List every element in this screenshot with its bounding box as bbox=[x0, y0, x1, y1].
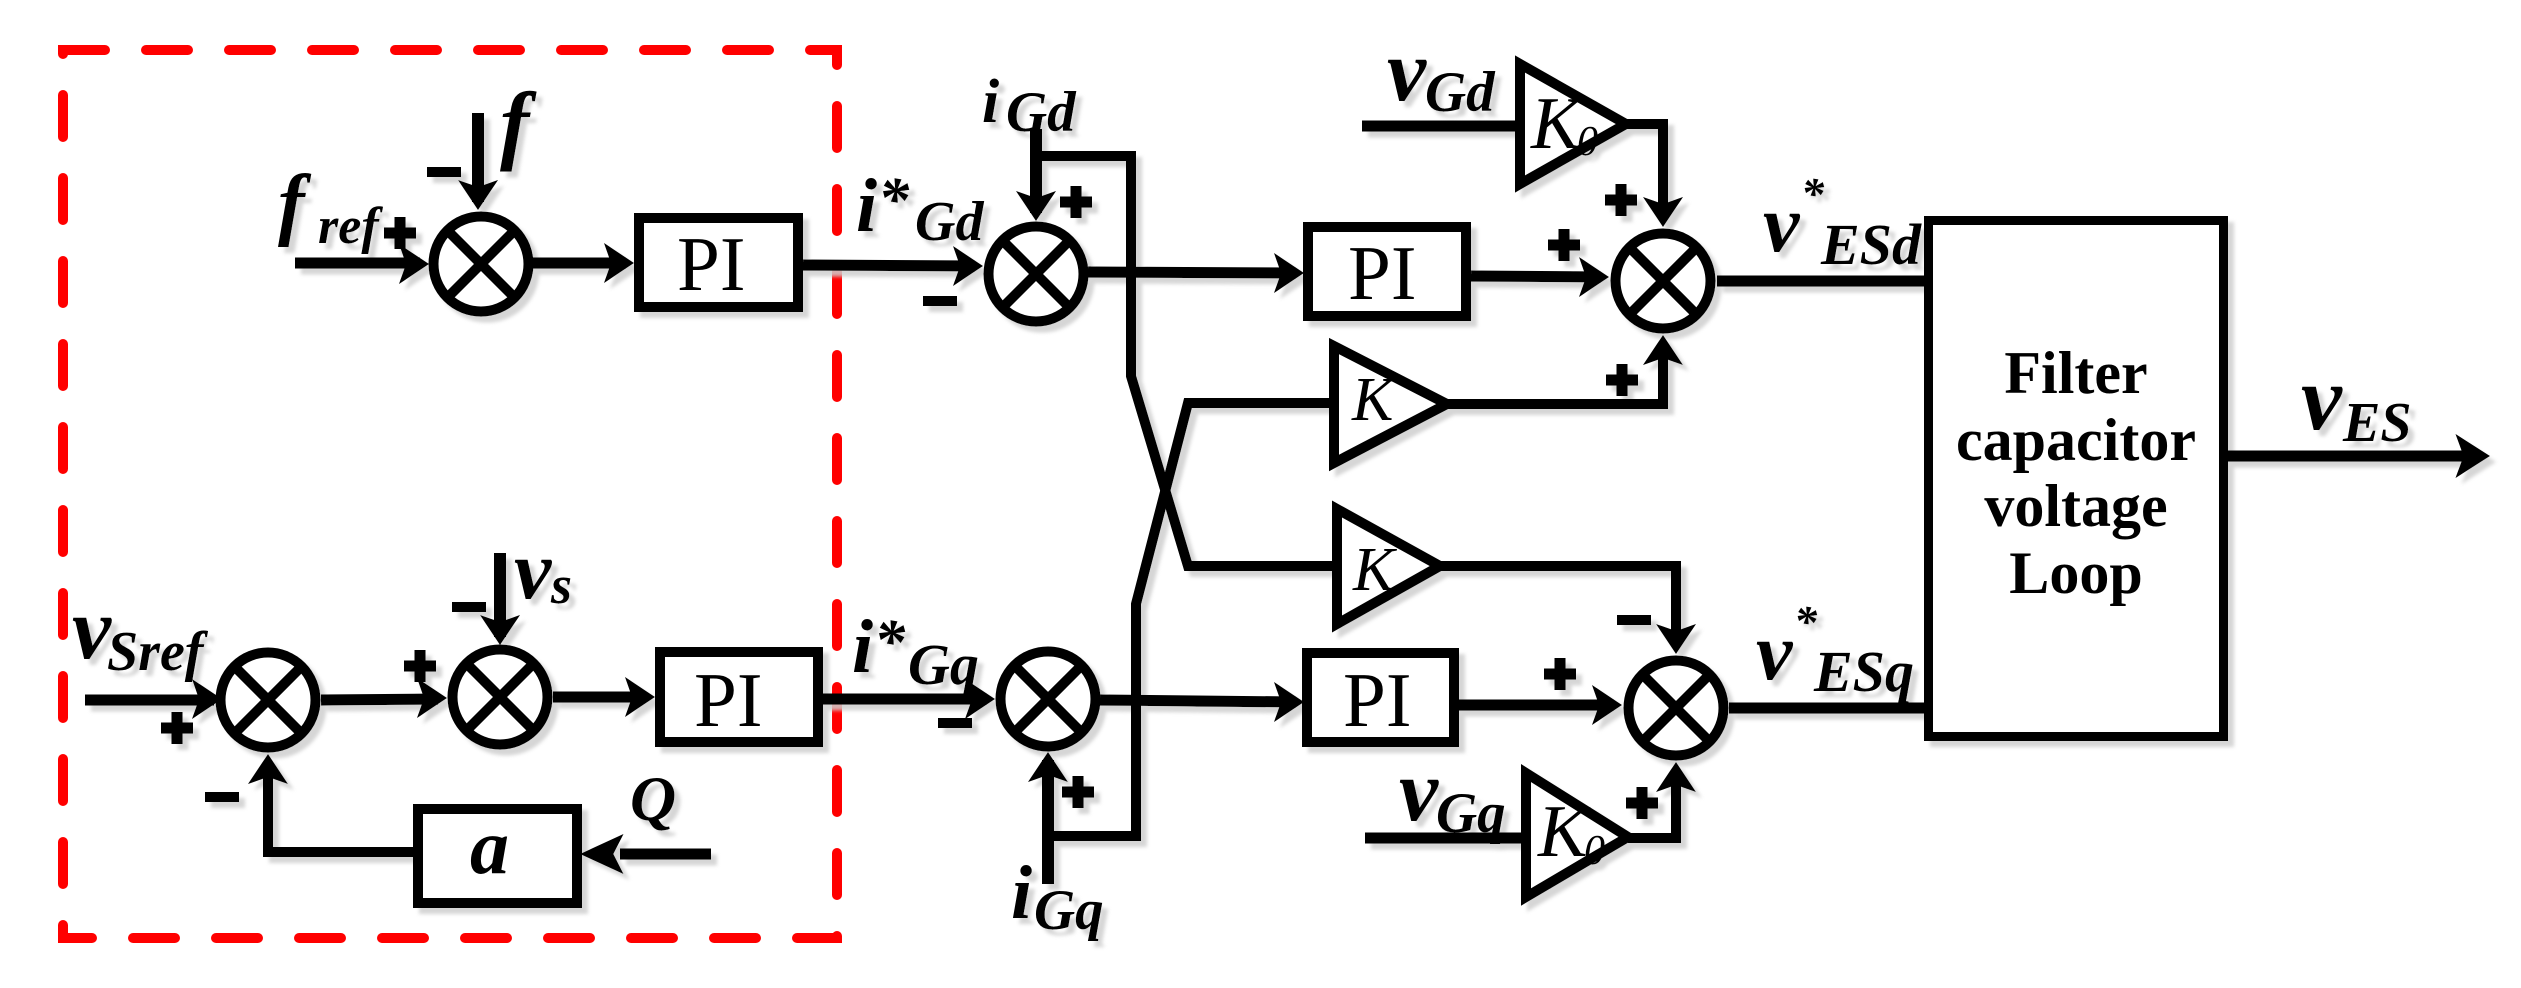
wire v_ES output bbox=[2228, 451, 2480, 462]
wire v_Sref input bbox=[85, 695, 214, 706]
wire PI1 to A2 bbox=[803, 265, 975, 266]
svg-text:K: K bbox=[1352, 536, 1398, 604]
minus sign at summing junction B2 top input bbox=[452, 602, 486, 612]
wire v_Gd input bbox=[1362, 121, 1520, 132]
svg-text:0: 0 bbox=[1577, 119, 1598, 165]
wire i_Gq input (vertical) bbox=[1042, 760, 1054, 884]
svg-text:ESd: ESd bbox=[1820, 212, 1922, 277]
svg-text:0: 0 bbox=[1584, 828, 1605, 874]
svg-text:v: v bbox=[514, 524, 553, 617]
svg-text:PI: PI bbox=[694, 657, 762, 743]
dashed red boundary box bbox=[63, 50, 837, 938]
wire i_Gd tap to cross-coupling (node to lower K) bbox=[1036, 156, 1337, 566]
label i_Gq bbox=[1011, 851, 1104, 942]
plus sign at summing junction A3 top input bbox=[1605, 184, 1637, 216]
svg-text:i: i bbox=[852, 605, 873, 689]
block Filter capacitor voltage Loop bbox=[1929, 221, 2224, 737]
svg-text:Gq: Gq bbox=[1034, 879, 1104, 942]
summing junction B4 bbox=[1629, 661, 1724, 756]
svg-text:s: s bbox=[550, 555, 572, 615]
svg-text:capacitor: capacitor bbox=[1956, 407, 2196, 473]
label v_Gd bbox=[1387, 23, 1496, 124]
wire v_Gq input bbox=[1365, 833, 1527, 844]
wire upper K output to A3 bottom bbox=[1447, 343, 1663, 404]
wire A1 to PI1 bbox=[533, 258, 626, 269]
plus sign at summing junction A2 top input bbox=[1060, 186, 1092, 218]
svg-text:ES: ES bbox=[2342, 392, 2412, 454]
svg-text:PI: PI bbox=[1343, 657, 1411, 743]
svg-text:ESq: ESq bbox=[1813, 639, 1914, 704]
summing junction A1 bbox=[434, 217, 529, 312]
PI controller PI2 bbox=[1308, 227, 1466, 316]
summing junction B1 bbox=[221, 653, 316, 748]
label i*_Gd bbox=[856, 164, 984, 253]
svg-text:Q: Q bbox=[630, 763, 676, 834]
gain K (upper, q-current cross term) bbox=[1334, 346, 1447, 463]
gain K0 (top) bbox=[1520, 64, 1626, 184]
wire PI3 to B3 bbox=[823, 694, 987, 705]
svg-text:voltage: voltage bbox=[1984, 473, 2167, 539]
svg-text:i: i bbox=[856, 164, 877, 248]
wire B4 output to filter box bbox=[1729, 703, 1924, 714]
svg-text:Gd: Gd bbox=[1425, 61, 1496, 124]
svg-text:K: K bbox=[1530, 83, 1584, 165]
svg-text:K: K bbox=[1537, 791, 1591, 873]
minus sign at summing junction B1 bottom input bbox=[205, 792, 239, 802]
minus sign at summing junction A1 top input bbox=[427, 167, 461, 177]
svg-text:v: v bbox=[2301, 347, 2343, 449]
PI controller PI4 bbox=[1307, 653, 1454, 743]
label v_Gq bbox=[1399, 743, 1506, 845]
wire i_Gq tap to cross-coupling (node to upper K) bbox=[1048, 403, 1334, 836]
label v_ES bbox=[2301, 347, 2412, 454]
label f_ref bbox=[278, 160, 383, 255]
plus sign at summing junction B3 bottom input bbox=[1062, 776, 1094, 808]
minus sign at summing junction B4 top input bbox=[1617, 615, 1651, 625]
svg-text:i: i bbox=[1011, 851, 1032, 935]
svg-text:v: v bbox=[1756, 606, 1794, 697]
svg-text:Filter: Filter bbox=[2004, 340, 2147, 406]
svg-text:*: * bbox=[878, 166, 910, 234]
label v*_ESd bbox=[1763, 168, 1922, 277]
svg-text:a: a bbox=[470, 803, 509, 890]
gain K0 (bottom) bbox=[1526, 773, 1628, 897]
wire a to B1 bottom (feedback) bbox=[268, 762, 413, 852]
wire lower K output to B4 top bbox=[1440, 566, 1676, 646]
gain block a bbox=[418, 803, 577, 903]
gain K (lower, d-current cross term) bbox=[1337, 509, 1440, 624]
wire f input (vertical) bbox=[472, 113, 484, 202]
plus sign at summing junction B2 left input bbox=[404, 650, 436, 682]
svg-text:v: v bbox=[72, 581, 112, 678]
svg-text:i: i bbox=[982, 68, 999, 136]
svg-text:Loop: Loop bbox=[2009, 540, 2142, 606]
svg-text:v: v bbox=[1387, 23, 1427, 120]
wire v_s input (vertical) bbox=[494, 553, 506, 637]
svg-text:ref: ref bbox=[318, 198, 383, 255]
wire B2 to PI3 bbox=[553, 692, 646, 703]
wire A3 output to filter box bbox=[1717, 276, 1924, 287]
wire f_ref input bbox=[295, 258, 420, 269]
label v_s bbox=[514, 524, 572, 617]
minus sign at summing junction A2 left input bbox=[923, 296, 957, 306]
plus sign at summing junction A3 left input bbox=[1548, 229, 1580, 261]
svg-text:v: v bbox=[1763, 178, 1801, 269]
wire A2 to PI2 bbox=[1088, 272, 1296, 273]
label v*_ESq bbox=[1756, 596, 1914, 704]
summing junction A2 bbox=[989, 227, 1084, 322]
minus sign at summing junction B3 left input bbox=[938, 718, 972, 728]
PI controller PI3 bbox=[660, 652, 818, 743]
svg-text:Gq: Gq bbox=[908, 632, 979, 697]
label v_Sref bbox=[72, 581, 209, 683]
svg-text:v: v bbox=[1399, 743, 1439, 840]
summing junction A3 bbox=[1616, 234, 1711, 329]
wire B3 to PI4 bbox=[1100, 700, 1296, 702]
plus sign at summing junction B4 bottom input bbox=[1626, 787, 1658, 819]
summing junction B3 bbox=[1001, 652, 1096, 747]
wire K0 to B4 bottom bbox=[1628, 770, 1676, 838]
label i_Gd bbox=[982, 68, 1077, 144]
svg-text:PI: PI bbox=[1348, 230, 1416, 316]
wire B1 to B2 bbox=[321, 699, 438, 700]
svg-text:Sref: Sref bbox=[107, 621, 209, 683]
wire Q input bbox=[620, 849, 711, 860]
PI controller PI1 bbox=[639, 218, 798, 307]
plus sign at summing junction B4 left input bbox=[1544, 658, 1576, 690]
wire PI2 to A3 bbox=[1471, 276, 1601, 277]
plus sign at summing junction A1 left input bbox=[384, 217, 416, 249]
label i*_Gq bbox=[852, 605, 979, 697]
wire i_Gd input (vertical) bbox=[1030, 129, 1042, 213]
wire K0 to A3 top bbox=[1626, 124, 1663, 219]
svg-text:*: * bbox=[874, 608, 906, 676]
svg-text:K: K bbox=[1351, 366, 1397, 434]
plus sign at summing junction B1 left input bbox=[161, 712, 193, 744]
summing junction B2 bbox=[453, 650, 548, 745]
svg-text:Gd: Gd bbox=[915, 191, 984, 253]
svg-text:PI: PI bbox=[677, 221, 745, 307]
wire PI4 to B4 bbox=[1459, 700, 1614, 711]
plus sign at summing junction A3 bottom input bbox=[1606, 364, 1638, 396]
